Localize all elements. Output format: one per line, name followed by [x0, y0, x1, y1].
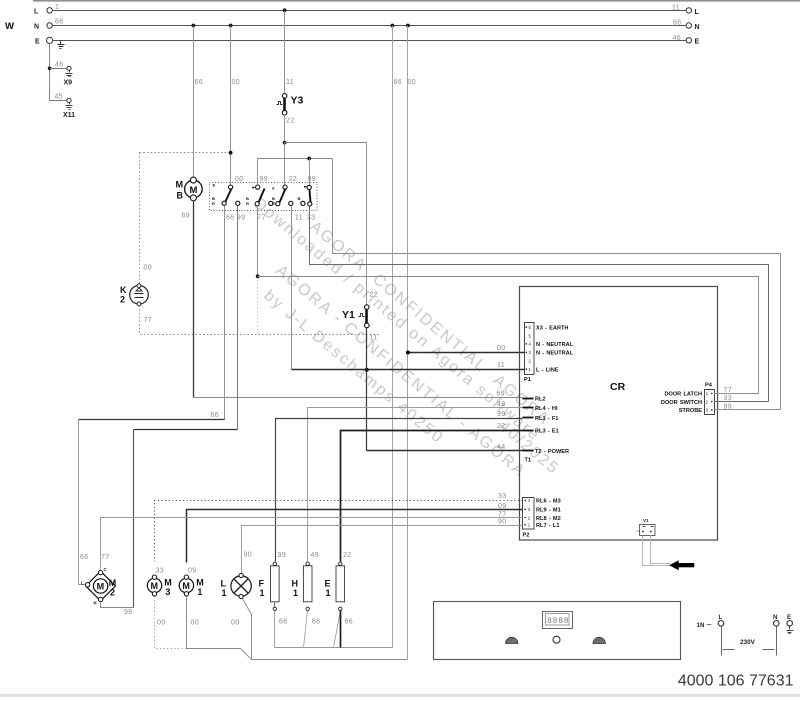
svg-text:44: 44	[497, 444, 506, 451]
svg-text:1: 1	[222, 588, 227, 598]
svg-text:M: M	[97, 582, 105, 592]
wire M1 bottom	[187, 597, 252, 660]
connector P2	[523, 498, 561, 539]
wire MB down	[193, 201, 195, 398]
svg-text:L: L	[34, 9, 39, 16]
svg-text:M: M	[151, 581, 159, 591]
svg-text:M: M	[196, 578, 204, 588]
svg-text:11: 11	[672, 5, 680, 12]
dashed wire to K2	[140, 152, 231, 154]
svg-text:H: H	[94, 601, 97, 606]
svg-text:66: 66	[211, 412, 220, 419]
svg-text:77: 77	[724, 387, 733, 394]
svg-text:RL6 - M3: RL6 - M3	[536, 499, 561, 505]
svg-text:F: F	[259, 579, 265, 589]
svg-text:2: 2	[120, 295, 125, 305]
svg-text:66: 66	[226, 215, 235, 222]
wire N to P1 pin3, label 00	[408, 352, 525, 354]
svg-text:P2: P2	[523, 533, 530, 539]
heater H1	[292, 552, 321, 626]
svg-text:00: 00	[144, 265, 153, 272]
svg-text:M: M	[109, 578, 117, 588]
earth symbol under E	[58, 41, 65, 49]
svg-text:00: 00	[191, 620, 200, 627]
svg-text:22: 22	[289, 176, 298, 183]
relay stubs RL2 RL4 RL1 RL3 T2	[523, 399, 534, 451]
V1 wires down to arrow	[643, 536, 671, 566]
wire 66 bus F1 H1 E1	[274, 611, 276, 648]
button middle	[553, 636, 560, 643]
button right	[593, 637, 605, 643]
svg-text:M: M	[176, 180, 184, 190]
wire node to Y1 corner	[285, 143, 367, 305]
svg-text:46: 46	[673, 35, 682, 42]
svg-text:X9: X9	[64, 80, 73, 87]
svg-text:RL2: RL2	[535, 397, 546, 403]
svg-text:T1: T1	[525, 458, 532, 464]
dotted wire RL6-M3, label 33	[155, 501, 523, 562]
dashed wire down to K2	[139, 153, 141, 284]
svg-text:11: 11	[497, 362, 505, 369]
wire node down to switch3 common	[284, 143, 286, 186]
svg-text:00: 00	[232, 79, 241, 86]
svg-text:RL3 - E1: RL3 - E1	[535, 428, 559, 434]
relay V1	[637, 518, 656, 536]
svg-text:68: 68	[312, 619, 321, 626]
wire N down right-1, label 66	[392, 26, 394, 648]
wire L-LINE to P1 pin1, label 11	[292, 369, 525, 371]
svg-text:99: 99	[124, 609, 133, 616]
svg-text:L: L	[221, 579, 227, 589]
switch S2	[246, 185, 273, 206]
svg-text:E: E	[695, 39, 700, 46]
heater F1	[259, 552, 288, 626]
svg-text:77: 77	[144, 317, 153, 324]
wire 99: S1-BR down, left, down, to M2-H joint	[237, 206, 239, 430]
page bottom edge bar	[0, 694, 800, 697]
wire N down right-2, label 00	[407, 26, 409, 660]
svg-text:V1: V1	[643, 518, 649, 523]
svg-text:1: 1	[260, 588, 265, 598]
svg-text:99: 99	[278, 552, 287, 559]
svg-text:X3 - EARTH: X3 - EARTH	[536, 325, 568, 331]
junction dot L line	[283, 8, 287, 12]
wire 00 neutral bottom bus	[252, 659, 408, 661]
wire N to MB, label 66	[193, 26, 195, 178]
node dashed taps switch1 common	[229, 151, 233, 155]
svg-text:22: 22	[370, 292, 379, 299]
svg-text:00: 00	[408, 79, 417, 86]
svg-text:3: 3	[165, 587, 170, 597]
svg-text:66: 66	[394, 79, 403, 86]
display	[543, 612, 573, 629]
dotted wire from switch2-BL node down	[257, 277, 259, 335]
svg-text:R: R	[246, 201, 249, 206]
svg-text:33: 33	[307, 215, 316, 222]
motor MB	[176, 177, 203, 219]
switch S3	[272, 185, 293, 206]
svg-text:T2 - POWER: T2 - POWER	[535, 449, 569, 455]
svg-text:00: 00	[497, 345, 506, 352]
switch S1	[212, 183, 240, 207]
svg-text:77: 77	[498, 511, 507, 518]
wire 77: S2-BL down to node	[257, 206, 259, 277]
svg-text:46: 46	[55, 62, 64, 69]
wire Y3 to node	[284, 115, 286, 143]
svg-text:22: 22	[497, 423, 506, 430]
svg-text:66: 66	[673, 20, 682, 27]
connector P4	[661, 383, 715, 415]
svg-text:DOOR LATCH: DOOR LATCH	[664, 392, 702, 398]
connector P1	[524, 323, 574, 384]
svg-text:M: M	[164, 578, 172, 588]
lamp L1	[221, 573, 252, 598]
svg-text:230V: 230V	[740, 639, 756, 646]
svg-text:Y3: Y3	[291, 95, 304, 107]
wire switch2 common riser	[258, 159, 333, 186]
connection arrow	[669, 560, 694, 570]
svg-text:99: 99	[237, 215, 246, 222]
control panel box	[434, 602, 681, 660]
junction dots N line	[192, 24, 196, 28]
wire E1 bottom dark	[340, 611, 342, 648]
svg-text:L - LINE: L - LINE	[536, 367, 559, 373]
wire N to switch1 common, label 00	[230, 26, 232, 186]
svg-text:Y1: Y1	[342, 309, 355, 321]
svg-text:M: M	[190, 185, 198, 196]
svg-text:E: E	[325, 579, 331, 589]
button left	[506, 637, 518, 643]
L bus wire	[53, 10, 687, 12]
legend 1N 230V	[697, 614, 794, 656]
svg-text:RL9 - M1: RL9 - M1	[536, 508, 561, 514]
svg-text:B: B	[298, 196, 301, 201]
svg-text:K: K	[120, 285, 127, 295]
wire 66: S1-BL down, left, down to M2-L	[79, 206, 225, 420]
svg-text:11: 11	[370, 335, 378, 342]
wire RL2 label 69	[194, 397, 523, 399]
svg-text:N: N	[773, 614, 778, 621]
wire 77 run to P4 door latch	[258, 277, 759, 394]
svg-text:09: 09	[188, 568, 197, 575]
svg-text:1N: 1N	[697, 622, 705, 629]
watermark AGORA CONFIDENTIAL	[250, 195, 562, 481]
svg-text:P4: P4	[705, 383, 713, 389]
earth drop wire from E	[49, 44, 51, 101]
svg-text:L: L	[695, 9, 700, 16]
svg-text:E: E	[213, 183, 216, 188]
svg-text:1: 1	[55, 4, 59, 11]
svg-text:E: E	[787, 614, 791, 621]
svg-text:45: 45	[55, 94, 64, 101]
svg-text:N - NEUTRAL: N - NEUTRAL	[536, 351, 574, 357]
svg-text:STROBE: STROBE	[679, 408, 703, 414]
dotted wire M3 bottom	[155, 597, 187, 649]
svg-text:N: N	[695, 24, 700, 31]
lamp L1 to bus diagonal	[243, 599, 252, 660]
motor M3	[147, 568, 171, 598]
wire T2 POWER, label 44	[367, 450, 523, 452]
N bus wire	[53, 25, 687, 27]
svg-text:99: 99	[260, 176, 269, 183]
switch bank dotted box	[210, 183, 318, 211]
svg-text:99: 99	[724, 404, 733, 411]
wire Y1 down	[366, 328, 368, 451]
svg-text:66: 66	[345, 619, 354, 626]
svg-text:69: 69	[497, 390, 506, 397]
svg-text:69: 69	[182, 213, 191, 220]
svg-text:R: R	[212, 201, 215, 206]
E bus wire	[53, 40, 687, 42]
diagonal E1 to 66 bus	[334, 611, 341, 648]
svg-text:P1: P1	[524, 377, 531, 383]
wire L to Y3, label 11	[284, 11, 286, 94]
svg-text:00: 00	[157, 620, 166, 627]
node on earth drop	[48, 67, 52, 71]
svg-text:99: 99	[308, 176, 317, 183]
svg-text:99: 99	[497, 411, 506, 418]
svg-text:49: 49	[311, 552, 320, 559]
svg-text:00: 00	[231, 620, 240, 627]
svg-text:90: 90	[498, 519, 507, 526]
svg-text:1: 1	[326, 588, 331, 598]
svg-text:2: 2	[637, 530, 641, 532]
svg-text:11: 11	[286, 79, 294, 86]
svg-text:~: ~	[707, 620, 712, 630]
wire 99 corner down to P4 strobe run	[333, 159, 781, 410]
node on 99 link	[307, 157, 311, 161]
motor M2	[81, 567, 116, 606]
node L-line	[365, 368, 369, 372]
svg-text:49: 49	[497, 401, 506, 408]
svg-text:C: C	[104, 567, 107, 572]
heater E1	[325, 552, 354, 626]
svg-text:33: 33	[724, 395, 733, 402]
wire 33: S4-BR down, right run to P4 door switch	[310, 207, 769, 402]
svg-text:1: 1	[197, 587, 202, 597]
svg-text:L: L	[81, 581, 84, 586]
svg-text:8888: 8888	[547, 617, 569, 626]
svg-text:11: 11	[295, 215, 303, 222]
wire RL1-F1 to F1, label 99	[276, 419, 523, 562]
svg-text:00: 00	[235, 176, 244, 183]
svg-text:L: L	[719, 614, 723, 621]
valve Y3	[277, 94, 304, 125]
wire RL3-E1 to E1, label 22	[341, 431, 523, 562]
svg-text:66: 66	[279, 619, 288, 626]
svg-text:90: 90	[244, 552, 253, 559]
svg-text:4000 106 77631: 4000 106 77631	[678, 673, 794, 690]
valve Y1	[342, 292, 378, 342]
svg-text:E: E	[35, 39, 40, 46]
svg-text:66: 66	[55, 19, 64, 26]
thermostat K2	[120, 265, 152, 325]
control board CR box	[520, 287, 718, 541]
wire 11: S3-BR down to L-line	[291, 206, 293, 370]
svg-text:33: 33	[498, 493, 507, 500]
svg-text:H: H	[292, 579, 299, 589]
node 22	[283, 141, 287, 145]
svg-text:M: M	[182, 581, 190, 591]
terminal X11	[67, 98, 71, 102]
wire to X11	[50, 100, 67, 102]
terminal X9	[67, 66, 71, 70]
motor M1	[179, 568, 204, 598]
svg-text:RL4 - HI: RL4 - HI	[535, 406, 558, 412]
P4 wires 77 33 99	[715, 393, 759, 395]
svg-text:DOOR SWITCH: DOOR SWITCH	[661, 400, 702, 406]
svg-text:RL1 - F1: RL1 - F1	[535, 416, 558, 422]
wire RL4-HI to H1, label 49	[308, 408, 523, 562]
svg-text:33: 33	[156, 568, 165, 575]
wire RL9-M1, label 09	[187, 510, 523, 563]
svg-text:RL7 - L1: RL7 - L1	[536, 523, 559, 529]
svg-text:22: 22	[286, 118, 295, 125]
svg-text:W: W	[5, 21, 14, 32]
svg-text:N - NEUTRAL: N - NEUTRAL	[536, 342, 574, 348]
wire M2-H to 99 joint	[101, 603, 134, 608]
svg-text:2: 2	[110, 588, 115, 598]
svg-text:09: 09	[498, 503, 507, 510]
svg-text:RL8 - M2: RL8 - M2	[536, 516, 561, 522]
wire to X9	[50, 68, 67, 70]
svg-text:77: 77	[257, 215, 266, 222]
dashed wire K2 bottom	[140, 306, 380, 335]
wire RL8-M2, label 77	[101, 518, 523, 570]
page top edge bar	[33, 0, 800, 2]
svg-text:N: N	[34, 24, 39, 31]
svg-text:X11: X11	[63, 112, 75, 119]
wire down to switch4 common	[309, 159, 311, 186]
svg-text:77: 77	[101, 554, 110, 561]
svg-text:22: 22	[343, 552, 352, 559]
wire RL7-L1, label 90	[242, 526, 523, 574]
svg-text:CR: CR	[610, 381, 626, 393]
svg-text:B: B	[177, 191, 184, 201]
switch S4	[298, 185, 312, 206]
svg-text:1: 1	[293, 588, 298, 598]
svg-text:66: 66	[80, 554, 89, 561]
svg-text:R: R	[272, 201, 275, 206]
diagonal H1 to 66 bus	[304, 611, 308, 648]
svg-text:66: 66	[195, 79, 204, 86]
